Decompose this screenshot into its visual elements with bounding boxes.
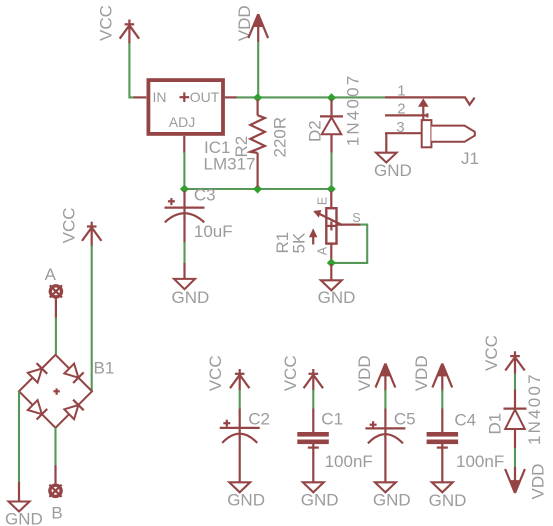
- svg-text:VCC: VCC: [281, 355, 300, 391]
- wire VCC to D1: [514, 373, 516, 390]
- supply symbol VCC (D1): [505, 351, 524, 374]
- svg-text:J1: J1: [461, 149, 479, 168]
- svg-text:1: 1: [397, 82, 405, 99]
- junction rail/R2: [253, 185, 262, 194]
- junction OUT/VDD/R2: [253, 93, 262, 102]
- svg-text:C1: C1: [321, 410, 343, 429]
- ground symbol below J1 pin3: [376, 153, 397, 163]
- svg-text:VDD: VDD: [529, 464, 548, 500]
- ground symbol below C5: [375, 482, 396, 492]
- wire bridge bottom corner to pad B: [54, 428, 56, 466]
- diode D1: [504, 390, 527, 449]
- ground symbol below C2: [229, 482, 250, 492]
- svg-text:S: S: [352, 211, 360, 225]
- wire pin3 to GND: [385, 133, 387, 157]
- ground symbol below C3: [174, 263, 195, 289]
- pin IN of IC1: [134, 96, 147, 98]
- pin 2 of J1: [385, 114, 429, 116]
- svg-text:C3: C3: [194, 186, 216, 205]
- capacitor C2 (polarized): [220, 409, 260, 487]
- svg-text:D2: D2: [306, 120, 325, 142]
- svg-text:ADJ: ADJ: [169, 114, 195, 130]
- wire wiper S loop to A: [333, 225, 367, 263]
- svg-text:VDD: VDD: [412, 355, 431, 391]
- bridge diode bottom-left: [37, 409, 48, 420]
- svg-text:VCC: VCC: [59, 207, 78, 243]
- svg-text:GND: GND: [429, 491, 467, 510]
- supply symbol VDD (C5): [376, 364, 396, 392]
- bridge diode top-left: [37, 363, 48, 374]
- wire C3 to GND: [183, 242, 185, 264]
- svg-text:VCC: VCC: [482, 335, 501, 371]
- wire bridge left corner to GND: [18, 391, 20, 483]
- svg-text:A: A: [316, 246, 330, 255]
- svg-text:GND: GND: [373, 491, 411, 510]
- pad A (circle with X): [50, 285, 62, 318]
- svg-text:C4: C4: [454, 411, 476, 430]
- svg-text:100nF: 100nF: [325, 452, 373, 471]
- supply symbol VDD (top): [248, 14, 268, 42]
- wire VDD to C5: [384, 390, 386, 409]
- wire D1 to VDD: [514, 448, 516, 468]
- junction OUT/D2: [327, 93, 336, 102]
- svg-text:GND: GND: [301, 491, 339, 510]
- svg-text:C5: C5: [394, 410, 416, 429]
- supply symbol VDD (down, D1): [505, 467, 525, 493]
- wire pad A to bridge: [55, 318, 57, 355]
- ground symbol below C1: [303, 482, 324, 492]
- svg-text:220R: 220R: [270, 117, 289, 158]
- junction ADJ/C3: [180, 185, 189, 194]
- svg-text:VCC: VCC: [206, 355, 225, 391]
- barrel body of J1: [422, 120, 432, 147]
- center contact arrow of J1: [418, 98, 429, 106]
- wire VCC to bridge right corner: [91, 246, 93, 391]
- wire ADJ down to rail: [183, 152, 185, 189]
- svg-text:3: 3: [396, 119, 404, 136]
- pin ADJ of IC1: [183, 136, 185, 153]
- pin 1 of J1 with switch notch: [385, 97, 475, 104]
- svg-text:GND: GND: [172, 288, 210, 307]
- supply symbol VCC (C1): [304, 369, 323, 391]
- svg-text:GND: GND: [374, 161, 412, 180]
- svg-text:VCC: VCC: [97, 5, 116, 41]
- svg-text:VDD: VDD: [235, 5, 254, 41]
- wire VCC to IN pin: [129, 43, 134, 97]
- wire OUT rail: [237, 96, 386, 98]
- svg-text:VDD: VDD: [355, 355, 374, 391]
- pad B (circle with X): [49, 485, 61, 497]
- junction rail/D2/R1: [327, 185, 336, 194]
- resistor R2: [250, 100, 265, 188]
- wire D2 to rail: [330, 153, 332, 188]
- ground symbol below R1: [321, 264, 342, 290]
- supply symbol VDD (C4): [432, 364, 452, 392]
- wire VCC to C1: [312, 390, 314, 409]
- svg-text:1N4007: 1N4007: [344, 74, 363, 147]
- svg-text:B: B: [51, 504, 62, 523]
- trimmer potentiometer R1: [309, 191, 361, 261]
- bridge rectifier B1: [19, 355, 92, 428]
- plus mark at OUT: [180, 96, 190, 98]
- svg-text:D1: D1: [486, 413, 505, 435]
- svg-text:2: 2: [397, 100, 405, 117]
- wire VCC to C2: [239, 390, 241, 409]
- connector J1 (DC barrel jack): [385, 97, 475, 157]
- op-amp-style regulator IC1 LM317 body: [134, 80, 256, 173]
- supply symbol VCC (C2): [230, 369, 249, 391]
- svg-text:C2: C2: [248, 410, 270, 429]
- svg-text:GND: GND: [318, 288, 356, 307]
- svg-text:GND: GND: [5, 510, 43, 526]
- ground symbol below C4: [432, 482, 453, 492]
- svg-text:GND: GND: [227, 491, 265, 510]
- pin OUT of IC1: [225, 96, 238, 98]
- bridge diode top-right: [73, 372, 84, 383]
- capacitor C5 (polarized): [365, 409, 405, 487]
- pin 3 of J1: [385, 132, 422, 134]
- wire VDD to OUT rail: [257, 42, 259, 96]
- capacitor C4 (100nF): [427, 409, 459, 487]
- bridge diode bottom-right: [73, 400, 84, 411]
- wire VDD to C4: [441, 390, 443, 409]
- svg-text:A: A: [45, 265, 57, 284]
- capacitor C3 (polarized): [165, 191, 205, 243]
- svg-text:E: E: [316, 197, 330, 205]
- capacitor C1 (100nF): [297, 409, 329, 487]
- ground symbol (B1 left): [9, 482, 30, 512]
- supply symbol VCC (top left): [120, 20, 139, 45]
- svg-text:5K: 5K: [290, 232, 309, 253]
- svg-text:1N4007: 1N4007: [525, 372, 544, 445]
- plus mark of B1: [53, 390, 59, 392]
- plug shape of J1: [431, 126, 474, 142]
- svg-text:R2: R2: [232, 136, 251, 158]
- svg-text:B1: B1: [94, 359, 115, 378]
- junction R1 A/S: [327, 258, 336, 267]
- svg-text:10uF: 10uF: [194, 222, 233, 241]
- svg-text:100nF: 100nF: [456, 452, 504, 471]
- supply symbol VCC (B1): [82, 222, 101, 247]
- wire ADJ rail (horizontal): [184, 188, 331, 190]
- svg-text:OUT: OUT: [190, 89, 220, 105]
- svg-text:IN: IN: [153, 89, 167, 105]
- diode D2: [320, 100, 343, 153]
